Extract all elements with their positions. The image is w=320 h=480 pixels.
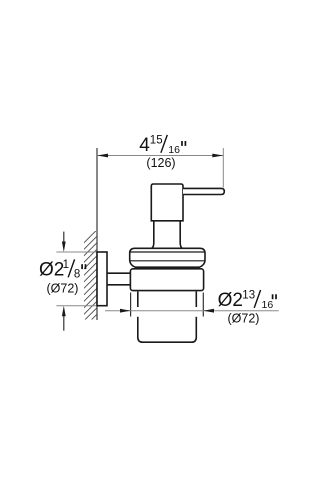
top dimension line <box>97 155 223 157</box>
svg-text:Ø2: Ø2 <box>39 259 64 280</box>
wall hatching <box>84 230 98 328</box>
bottom dimension left arrow <box>120 309 131 313</box>
top dimension right arrow <box>212 154 223 158</box>
svg-text:(Ø72): (Ø72) <box>47 281 79 295</box>
left dimension top measure line <box>56 251 97 253</box>
bottom dimension extension line right <box>202 293 204 317</box>
svg-text:8: 8 <box>74 268 80 280</box>
bottom dimension extension line left <box>130 293 132 317</box>
svg-text:4: 4 <box>139 135 150 156</box>
svg-text:13: 13 <box>242 289 255 301</box>
svg-text:16: 16 <box>262 299 274 311</box>
glass gap masks at dimension crossing <box>136 307 140 317</box>
svg-text:15: 15 <box>150 134 163 146</box>
pump neck <box>152 221 182 248</box>
top dimension left arrow <box>97 154 108 158</box>
top dimension right extension line <box>222 148 224 188</box>
shoulder cap <box>130 248 205 267</box>
svg-text:16: 16 <box>168 144 180 156</box>
svg-text:1: 1 <box>63 259 69 271</box>
svg-text:Ø2: Ø2 <box>218 290 243 311</box>
arm bottom line <box>107 284 131 286</box>
left dimension bottom arrow <box>63 311 65 331</box>
holder ring <box>130 269 203 291</box>
left dimension bottom measure line <box>56 305 97 307</box>
left dimension top arrow <box>63 232 65 246</box>
wall face line <box>96 148 98 320</box>
mounting plate <box>97 252 107 306</box>
arm top line <box>107 272 131 274</box>
spout <box>183 188 224 194</box>
top dimension label 4 15/16" <box>139 134 185 156</box>
svg-text:(Ø72): (Ø72) <box>228 312 260 326</box>
bottom dimension label Ø2 13/16" <box>218 289 276 311</box>
left dimension label Ø2 1/8" <box>39 259 86 281</box>
shoulder seam lower <box>130 260 205 262</box>
bottom dimension line <box>105 310 279 312</box>
shoulder seam upper <box>130 251 205 253</box>
svg-text:(126): (126) <box>146 156 175 170</box>
bottom dimension right arrow <box>203 309 214 313</box>
glass body <box>138 292 197 343</box>
pump head <box>151 184 183 221</box>
